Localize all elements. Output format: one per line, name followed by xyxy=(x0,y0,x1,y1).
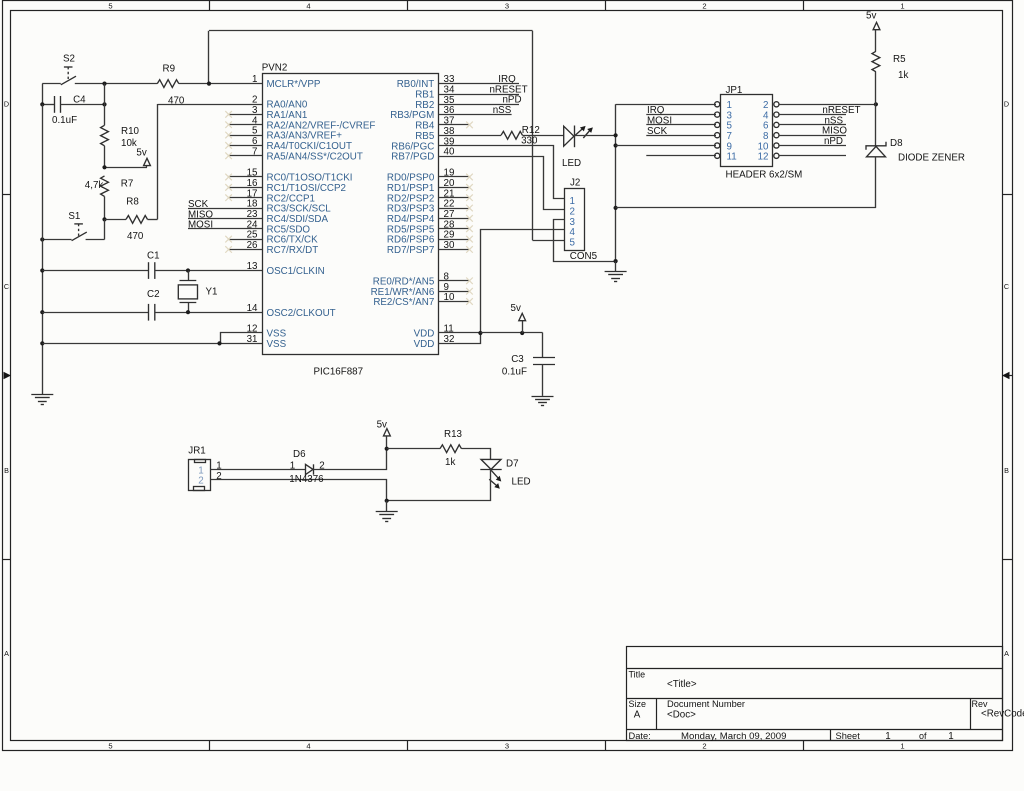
svg-text:2: 2 xyxy=(252,95,257,106)
wire stub JP1 pin 11 xyxy=(646,155,716,157)
svg-text:Document Number: Document Number xyxy=(667,699,745,709)
pin 20 RD1/PSP1 xyxy=(439,187,470,189)
svg-text:1N4376: 1N4376 xyxy=(289,474,324,485)
svg-text:RD6/PSP6: RD6/PSP6 xyxy=(387,235,435,246)
wire pin 40 to J2 pin 2 xyxy=(439,157,565,210)
svg-text:R5: R5 xyxy=(893,54,906,65)
svg-text:30: 30 xyxy=(444,240,455,251)
JP1 pin circle left 5 xyxy=(715,122,720,127)
svg-text:1: 1 xyxy=(885,731,890,742)
svg-text:2: 2 xyxy=(702,742,706,751)
ground bottom circuit xyxy=(376,512,398,522)
svg-text:LED: LED xyxy=(562,158,581,169)
JP1 pin circle right 2 xyxy=(774,102,779,107)
svg-text:R12: R12 xyxy=(522,125,540,136)
wire S1 left contact xyxy=(42,239,71,241)
svg-text:0.1uF: 0.1uF xyxy=(502,367,527,378)
wire S1 up to R8 node xyxy=(104,219,106,239)
svg-text:RD1/PSP1: RD1/PSP1 xyxy=(387,183,434,194)
title block divider Size xyxy=(656,699,658,730)
svg-text:RA3/AN3/VREF+: RA3/AN3/VREF+ xyxy=(267,131,343,142)
svg-text:Title: Title xyxy=(629,669,646,679)
svg-text:RD0/PSP0: RD0/PSP0 xyxy=(387,173,435,184)
svg-text:1: 1 xyxy=(290,461,295,472)
svg-text:OSC1/CLKIN: OSC1/CLKIN xyxy=(267,266,325,277)
LED D5 symbol xyxy=(564,126,575,148)
svg-text:HEADER 6x2/SM: HEADER 6x2/SM xyxy=(726,169,803,180)
svg-text:10k: 10k xyxy=(121,138,137,149)
wire pin 38 to R12 xyxy=(439,135,502,137)
svg-text:RC2/CCP1: RC2/CCP1 xyxy=(267,193,315,204)
border tick bottom xyxy=(209,740,211,751)
svg-text:5v: 5v xyxy=(511,303,521,314)
power 5v symbol mid-left xyxy=(144,158,151,165)
svg-text:6: 6 xyxy=(252,136,258,147)
pin 3 RA1/AN1 xyxy=(229,114,262,116)
capacitor C3 xyxy=(533,358,555,365)
capacitor C4 xyxy=(55,96,61,113)
svg-text:3: 3 xyxy=(505,742,509,751)
junction C4 / R10 xyxy=(102,102,106,106)
svg-text:DIODE ZENER: DIODE ZENER xyxy=(898,152,965,163)
svg-text:15: 15 xyxy=(247,168,258,179)
pin 28 RD5/PSP5 xyxy=(439,228,470,230)
svg-text:D6: D6 xyxy=(293,449,306,460)
pin 10 RE2/CS*/AN7 xyxy=(439,301,470,303)
svg-text:5v: 5v xyxy=(866,11,876,22)
junction R5 rail / JP1 pin 2 xyxy=(874,102,878,106)
JP1 pin circle left 11 xyxy=(715,153,720,158)
svg-text:<Doc>: <Doc> xyxy=(667,710,696,721)
svg-text:R13: R13 xyxy=(444,429,463,440)
border tick top xyxy=(209,1,211,11)
wire nPD stub pin 35 xyxy=(439,104,520,106)
wire nRESET JP1 pin 4 xyxy=(779,114,846,116)
junction left rail / C1 xyxy=(40,268,44,272)
resistor R13 xyxy=(440,445,462,453)
wire R5 to D8 xyxy=(875,72,877,146)
pin 29 RD6/PSP6 xyxy=(439,239,470,241)
pin 19 RD0/PSP0 xyxy=(439,176,470,178)
pin 26 RC7/RX/DT xyxy=(229,249,262,251)
svg-text:RA0/AN0: RA0/AN0 xyxy=(267,100,308,111)
wire MCLR net down to J2 pin 5 xyxy=(532,31,534,240)
svg-text:RC7/RX/DT: RC7/RX/DT xyxy=(267,245,319,256)
wire stub JP1 pin 12 xyxy=(779,155,846,157)
pin 25 RC6/TX/CK xyxy=(229,239,262,241)
wire R7 bottom xyxy=(104,196,106,219)
svg-text:2: 2 xyxy=(216,471,221,482)
svg-text:5: 5 xyxy=(108,742,112,751)
svg-text:RA5/AN4/SS*/C2OUT: RA5/AN4/SS*/C2OUT xyxy=(267,151,363,162)
wire bus to JP1 pin 1 xyxy=(616,104,716,106)
resistor R9 xyxy=(157,80,179,88)
wire bus to JP1 pin 9 xyxy=(616,145,716,147)
svg-text:Sheet: Sheet xyxy=(836,731,861,741)
svg-text:RC5/SDO: RC5/SDO xyxy=(267,224,311,235)
junction C1 / Y1 top xyxy=(186,268,190,272)
svg-text:VDD: VDD xyxy=(414,339,435,350)
svg-text:JR1: JR1 xyxy=(188,446,205,457)
pin 7 RA5/AN4/SS*/C2OUT xyxy=(229,155,262,157)
junction S2/R10 node xyxy=(102,82,106,86)
JP1 pin circle right 8 xyxy=(774,133,779,138)
border tick right xyxy=(1002,194,1012,196)
diode zener D8 xyxy=(866,142,886,157)
title block outer xyxy=(627,647,1003,741)
diode D6 xyxy=(306,464,314,474)
svg-text:1k: 1k xyxy=(898,70,908,81)
wire C1 to OSC1 pin 13 xyxy=(155,270,262,272)
junction bus / CON5 ground xyxy=(614,259,618,263)
JR1 top notch xyxy=(195,460,206,463)
border center arrow right xyxy=(1002,372,1010,379)
wire left rail to C1 xyxy=(42,270,148,272)
wire nSS JP1 pin 6 xyxy=(779,124,846,126)
wire bus ground stem xyxy=(615,261,617,272)
svg-text:R10: R10 xyxy=(121,126,140,137)
svg-text:4: 4 xyxy=(306,1,310,10)
pin 15 RC0/T1OSO/T1CKI xyxy=(229,176,262,178)
svg-text:12: 12 xyxy=(758,152,769,163)
border tick bottom xyxy=(803,740,805,751)
svg-text:37: 37 xyxy=(444,116,455,127)
svg-text:C1: C1 xyxy=(147,250,160,261)
border tick left xyxy=(2,559,11,561)
svg-text:RA4/T0CKI/C1OUT: RA4/T0CKI/C1OUT xyxy=(267,141,352,152)
switch S2 xyxy=(61,67,76,85)
junction VSS pins 12/31 xyxy=(217,341,221,345)
resistor R8 xyxy=(126,216,148,224)
svg-text:27: 27 xyxy=(444,209,455,220)
svg-text:Y1: Y1 xyxy=(206,286,218,297)
svg-text:14: 14 xyxy=(247,303,258,314)
JP1 pin circle left 7 xyxy=(715,133,720,138)
svg-text:1: 1 xyxy=(252,74,257,85)
pin 21 RD2/PSP2 xyxy=(439,197,470,199)
svg-text:of: of xyxy=(919,731,927,741)
junction left rail / C4 xyxy=(40,102,44,106)
svg-text:Monday, March 09, 2009: Monday, March 09, 2009 xyxy=(681,731,786,742)
svg-text:13: 13 xyxy=(247,261,258,272)
wire SCK to pin 18 xyxy=(188,208,262,210)
svg-text:JP1: JP1 xyxy=(726,85,743,96)
svg-text:MCLR*/VPP: MCLR*/VPP xyxy=(267,79,321,90)
svg-text:31: 31 xyxy=(247,334,258,345)
svg-text:Date:: Date: xyxy=(629,731,651,741)
junction bus / LED wire xyxy=(614,133,618,137)
svg-text:C: C xyxy=(4,282,9,291)
pin 17 RC2/CCP1 xyxy=(229,197,262,199)
junction left rail / C2 xyxy=(40,310,44,314)
wire 5v tap to R7 node xyxy=(105,167,148,169)
svg-text:2: 2 xyxy=(702,1,706,10)
svg-text:5: 5 xyxy=(570,238,576,249)
title block line under top row xyxy=(627,668,1002,670)
JP1 pin circle right 10 xyxy=(774,143,779,148)
wire C4 right plate to R10 node xyxy=(60,104,104,106)
junction bus / JP1 pin 9 wire xyxy=(614,143,618,147)
svg-text:3: 3 xyxy=(505,1,509,10)
wire nSS stub pin 36 xyxy=(439,114,512,116)
JP1 pin circle left 9 xyxy=(715,143,720,148)
wire JR1 pin 1 to D6 xyxy=(210,469,306,471)
svg-text:470: 470 xyxy=(127,231,144,242)
wire R9 to pin 1 xyxy=(179,83,262,85)
pin 8 RE0/RD*/AN5 xyxy=(439,280,470,282)
junction R10/R7/5v xyxy=(102,165,106,169)
svg-text:7: 7 xyxy=(252,146,257,157)
svg-text:21: 21 xyxy=(444,188,455,199)
border tick left xyxy=(2,194,11,196)
svg-text:0.1uF: 0.1uF xyxy=(52,115,77,126)
pin 6 RA4/T0CKI/C1OUT xyxy=(229,145,262,147)
wire D6 to 5v node xyxy=(314,449,387,470)
LED D7 symbol xyxy=(480,459,501,469)
svg-text:R9: R9 xyxy=(163,63,176,74)
svg-text:5: 5 xyxy=(252,126,258,137)
wire IRQ to JP1 pin 3 xyxy=(646,114,716,116)
svg-text:D: D xyxy=(4,100,9,109)
svg-text:VSS: VSS xyxy=(267,339,287,350)
JP1 pin circle right 6 xyxy=(774,122,779,127)
svg-text:10: 10 xyxy=(444,292,455,303)
wire nPD JP1 pin 10 xyxy=(779,145,846,147)
wire left ground rail xyxy=(42,104,44,394)
svg-text:RC1/T1OSI/CCP2: RC1/T1OSI/CCP2 xyxy=(267,183,347,194)
svg-text:20: 20 xyxy=(444,178,455,189)
svg-text:19: 19 xyxy=(444,168,455,179)
svg-text:A: A xyxy=(634,709,641,720)
svg-text:17: 17 xyxy=(247,188,258,199)
JP1 pin circle left 1 xyxy=(715,102,720,107)
wire vertical bus to JP1 xyxy=(615,104,617,261)
ground at J2 bus xyxy=(605,272,627,282)
svg-text:25: 25 xyxy=(247,230,258,241)
wire J2 pin 3 to ground bus xyxy=(554,220,616,262)
svg-text:RA1/AN1: RA1/AN1 xyxy=(267,110,308,121)
svg-text:C: C xyxy=(1004,282,1009,291)
pin 5 RA3/AN3/VREF+ xyxy=(229,135,262,137)
svg-text:S1: S1 xyxy=(68,211,80,222)
pin 27 RD4/PSP4 xyxy=(439,218,470,220)
JP1 pin circle right 12 xyxy=(774,153,779,158)
LED D7 arrows xyxy=(489,470,501,489)
junction VDD node xyxy=(478,331,482,335)
LED arrows xyxy=(574,126,593,138)
svg-text:S2: S2 xyxy=(63,53,75,64)
wire C3 to ground xyxy=(542,364,544,396)
border tick top xyxy=(803,1,805,11)
wire JP1 pin 2 to R5/D8 rail xyxy=(779,104,876,106)
wire nRESET stub pin 34 xyxy=(439,94,520,96)
svg-text:J2: J2 xyxy=(570,177,580,188)
ground left rail xyxy=(31,395,53,405)
wire S2 right to R9 xyxy=(75,83,158,85)
pin 4 RA2/AN2/VREF-/CVREF xyxy=(229,124,262,126)
wire to R8 xyxy=(105,219,127,221)
svg-text:8: 8 xyxy=(444,271,450,282)
svg-text:28: 28 xyxy=(444,219,455,230)
resistor R12 xyxy=(501,131,523,139)
svg-text:4: 4 xyxy=(306,742,310,751)
svg-text:RB7/PGD: RB7/PGD xyxy=(391,152,434,163)
svg-text:2: 2 xyxy=(198,476,203,487)
svg-text:VSS: VSS xyxy=(267,329,287,340)
junction bus / D8 return xyxy=(614,206,618,210)
wire MISO to pin 23 xyxy=(188,218,262,220)
IC U1 PIC16F887 body xyxy=(263,74,439,355)
power 5v symbol at C3 xyxy=(519,313,526,320)
JR1 bottom notch xyxy=(194,487,205,491)
JP1 pin circle right 4 xyxy=(774,112,779,117)
border tick bottom xyxy=(605,740,607,751)
svg-text:R7: R7 xyxy=(121,179,134,190)
svg-text:D8: D8 xyxy=(890,138,903,149)
svg-text:A: A xyxy=(1004,649,1009,658)
svg-text:2: 2 xyxy=(570,207,575,218)
svg-text:1: 1 xyxy=(900,1,904,10)
wire R10 bottom to 5v node xyxy=(104,146,106,168)
svg-text:RB0/INT: RB0/INT xyxy=(397,79,435,90)
wire R8 to RA0 net xyxy=(148,219,158,221)
svg-text:Size: Size xyxy=(629,699,647,709)
svg-text:29: 29 xyxy=(444,230,455,241)
wire R10 top xyxy=(104,84,106,126)
wire J2 pin 4 to VDD rail xyxy=(481,230,565,333)
svg-text:22: 22 xyxy=(444,199,455,210)
title block line under Title row xyxy=(627,698,1002,700)
svg-text:C3: C3 xyxy=(511,354,524,365)
connector JR1 body xyxy=(189,460,211,491)
resistor R5 xyxy=(872,51,880,72)
title block line under Size row xyxy=(627,729,1002,731)
junction ground node bottom xyxy=(385,499,389,503)
wire VSS pin 31 xyxy=(42,343,262,345)
connector J2 body xyxy=(565,189,585,251)
svg-text:RE2/CS*/AN7: RE2/CS*/AN7 xyxy=(373,297,434,308)
svg-text:RD5/PSP5: RD5/PSP5 xyxy=(387,224,435,235)
resistor R7 xyxy=(101,176,109,197)
svg-text:RB4: RB4 xyxy=(415,121,435,132)
wire pin 39 to J2 pin 1 xyxy=(439,146,565,199)
svg-text:D: D xyxy=(1004,100,1009,109)
wire C2 to OSC2 pin 14 xyxy=(155,312,262,314)
svg-text:RD7/PSP7: RD7/PSP7 xyxy=(387,245,434,256)
wire VSS pin 12 L-shape xyxy=(221,333,263,344)
wire Y1 bottom stub xyxy=(188,303,190,313)
wire MCLR net top bus xyxy=(209,30,533,32)
svg-text:16: 16 xyxy=(247,178,258,189)
wire IRQ stub pin 33 xyxy=(439,83,520,85)
svg-text:1k: 1k xyxy=(445,457,455,468)
svg-text:3: 3 xyxy=(252,105,258,116)
wire into C4 left plate xyxy=(42,104,54,106)
svg-text:RC6/TX/CK: RC6/TX/CK xyxy=(267,235,319,246)
wire 5v stub to VDD node xyxy=(522,321,524,333)
wire S1 right contact xyxy=(86,239,105,241)
junction R7/R8/S1 xyxy=(102,217,106,221)
svg-text:5: 5 xyxy=(108,1,112,10)
wire left rail to C2 xyxy=(42,312,148,314)
junction 5v/R13/D6 xyxy=(385,447,389,451)
wire JR1 pin 2 to ground node xyxy=(211,480,387,501)
wire ground stem bottom xyxy=(386,501,388,512)
wire MISO JP1 pin 8 xyxy=(779,135,846,137)
svg-text:RB5: RB5 xyxy=(415,131,435,142)
svg-text:<Title>: <Title> xyxy=(667,679,697,690)
svg-text:<RevCode: <RevCode xyxy=(981,709,1024,720)
svg-text:RD3/PSP3: RD3/PSP3 xyxy=(387,204,435,215)
svg-text:12: 12 xyxy=(247,324,258,335)
svg-text:B: B xyxy=(4,466,9,475)
svg-text:PVN2: PVN2 xyxy=(262,63,288,74)
wire 5v stub down xyxy=(146,166,148,168)
resistor R10 xyxy=(101,125,109,146)
svg-text:4: 4 xyxy=(252,115,258,126)
junction R9 / MCLR bus xyxy=(207,82,211,86)
svg-text:VDD: VDD xyxy=(414,329,435,340)
svg-text:RE0/RD*/AN5: RE0/RD*/AN5 xyxy=(373,276,435,287)
wire 5v to R13 node xyxy=(386,436,388,449)
wire 5v to R5 xyxy=(875,30,877,52)
svg-text:RC0/T1OSO/T1CKI: RC0/T1OSO/T1CKI xyxy=(267,173,353,184)
svg-text:OSC2/CLKOUT: OSC2/CLKOUT xyxy=(267,308,336,319)
pin 16 RC1/T1OSI/CCP2 xyxy=(229,187,262,189)
svg-text:5v: 5v xyxy=(136,147,146,158)
border center arrow left xyxy=(4,372,12,379)
junction left rail / VSS xyxy=(40,341,44,345)
svg-text:1: 1 xyxy=(948,731,953,742)
wire D8 anode down xyxy=(875,157,877,208)
wire MOSI to pin 24 xyxy=(188,228,262,230)
capacitor C2 xyxy=(149,304,155,321)
pin 9 RE1/WR*/AN6 xyxy=(439,291,470,293)
svg-text:RA2/AN2/VREF-/CVREF: RA2/AN2/VREF-/CVREF xyxy=(267,120,376,131)
svg-text:RD2/PSP2: RD2/PSP2 xyxy=(387,193,434,204)
wire VDD down to C3 xyxy=(542,333,544,358)
svg-text:PIC16F887: PIC16F887 xyxy=(314,367,364,378)
crystal Y1 xyxy=(178,281,197,303)
pin 22 RD3/PSP3 xyxy=(439,208,470,210)
svg-text:11: 11 xyxy=(727,152,737,163)
svg-text:26: 26 xyxy=(247,240,258,251)
svg-text:RC3/SCK/SCL: RC3/SCK/SCL xyxy=(267,204,332,215)
power 5v symbol bottom xyxy=(384,429,391,436)
wire R12 to LED xyxy=(523,135,564,137)
wire SCK to JP1 pin 7 xyxy=(646,135,716,137)
wire into J2 pin 5 xyxy=(533,240,565,242)
power 5v symbol top right xyxy=(873,22,880,29)
ground at C3 xyxy=(532,397,554,406)
svg-text:R8: R8 xyxy=(126,197,139,208)
wire VDD to C3 xyxy=(480,332,542,334)
border tick bottom xyxy=(407,740,409,751)
title block divider Date/Sheet xyxy=(830,730,832,741)
junction left rail / S1 xyxy=(40,237,44,241)
svg-text:LED: LED xyxy=(512,476,531,487)
junction C2 / Y1 bottom xyxy=(186,310,190,314)
svg-text:RC4/SDI/SDA: RC4/SDI/SDA xyxy=(267,214,329,225)
pin 37 RB4 xyxy=(439,124,470,126)
svg-text:A: A xyxy=(4,649,9,658)
border tick top xyxy=(605,1,607,11)
wire to R13 xyxy=(387,448,440,450)
wire S2 left down to C4 node xyxy=(42,84,44,105)
wire MCLR net vertical up from R9 junction xyxy=(208,31,210,84)
switch S1 xyxy=(72,224,87,241)
junction 5v / C3 node xyxy=(520,331,524,335)
